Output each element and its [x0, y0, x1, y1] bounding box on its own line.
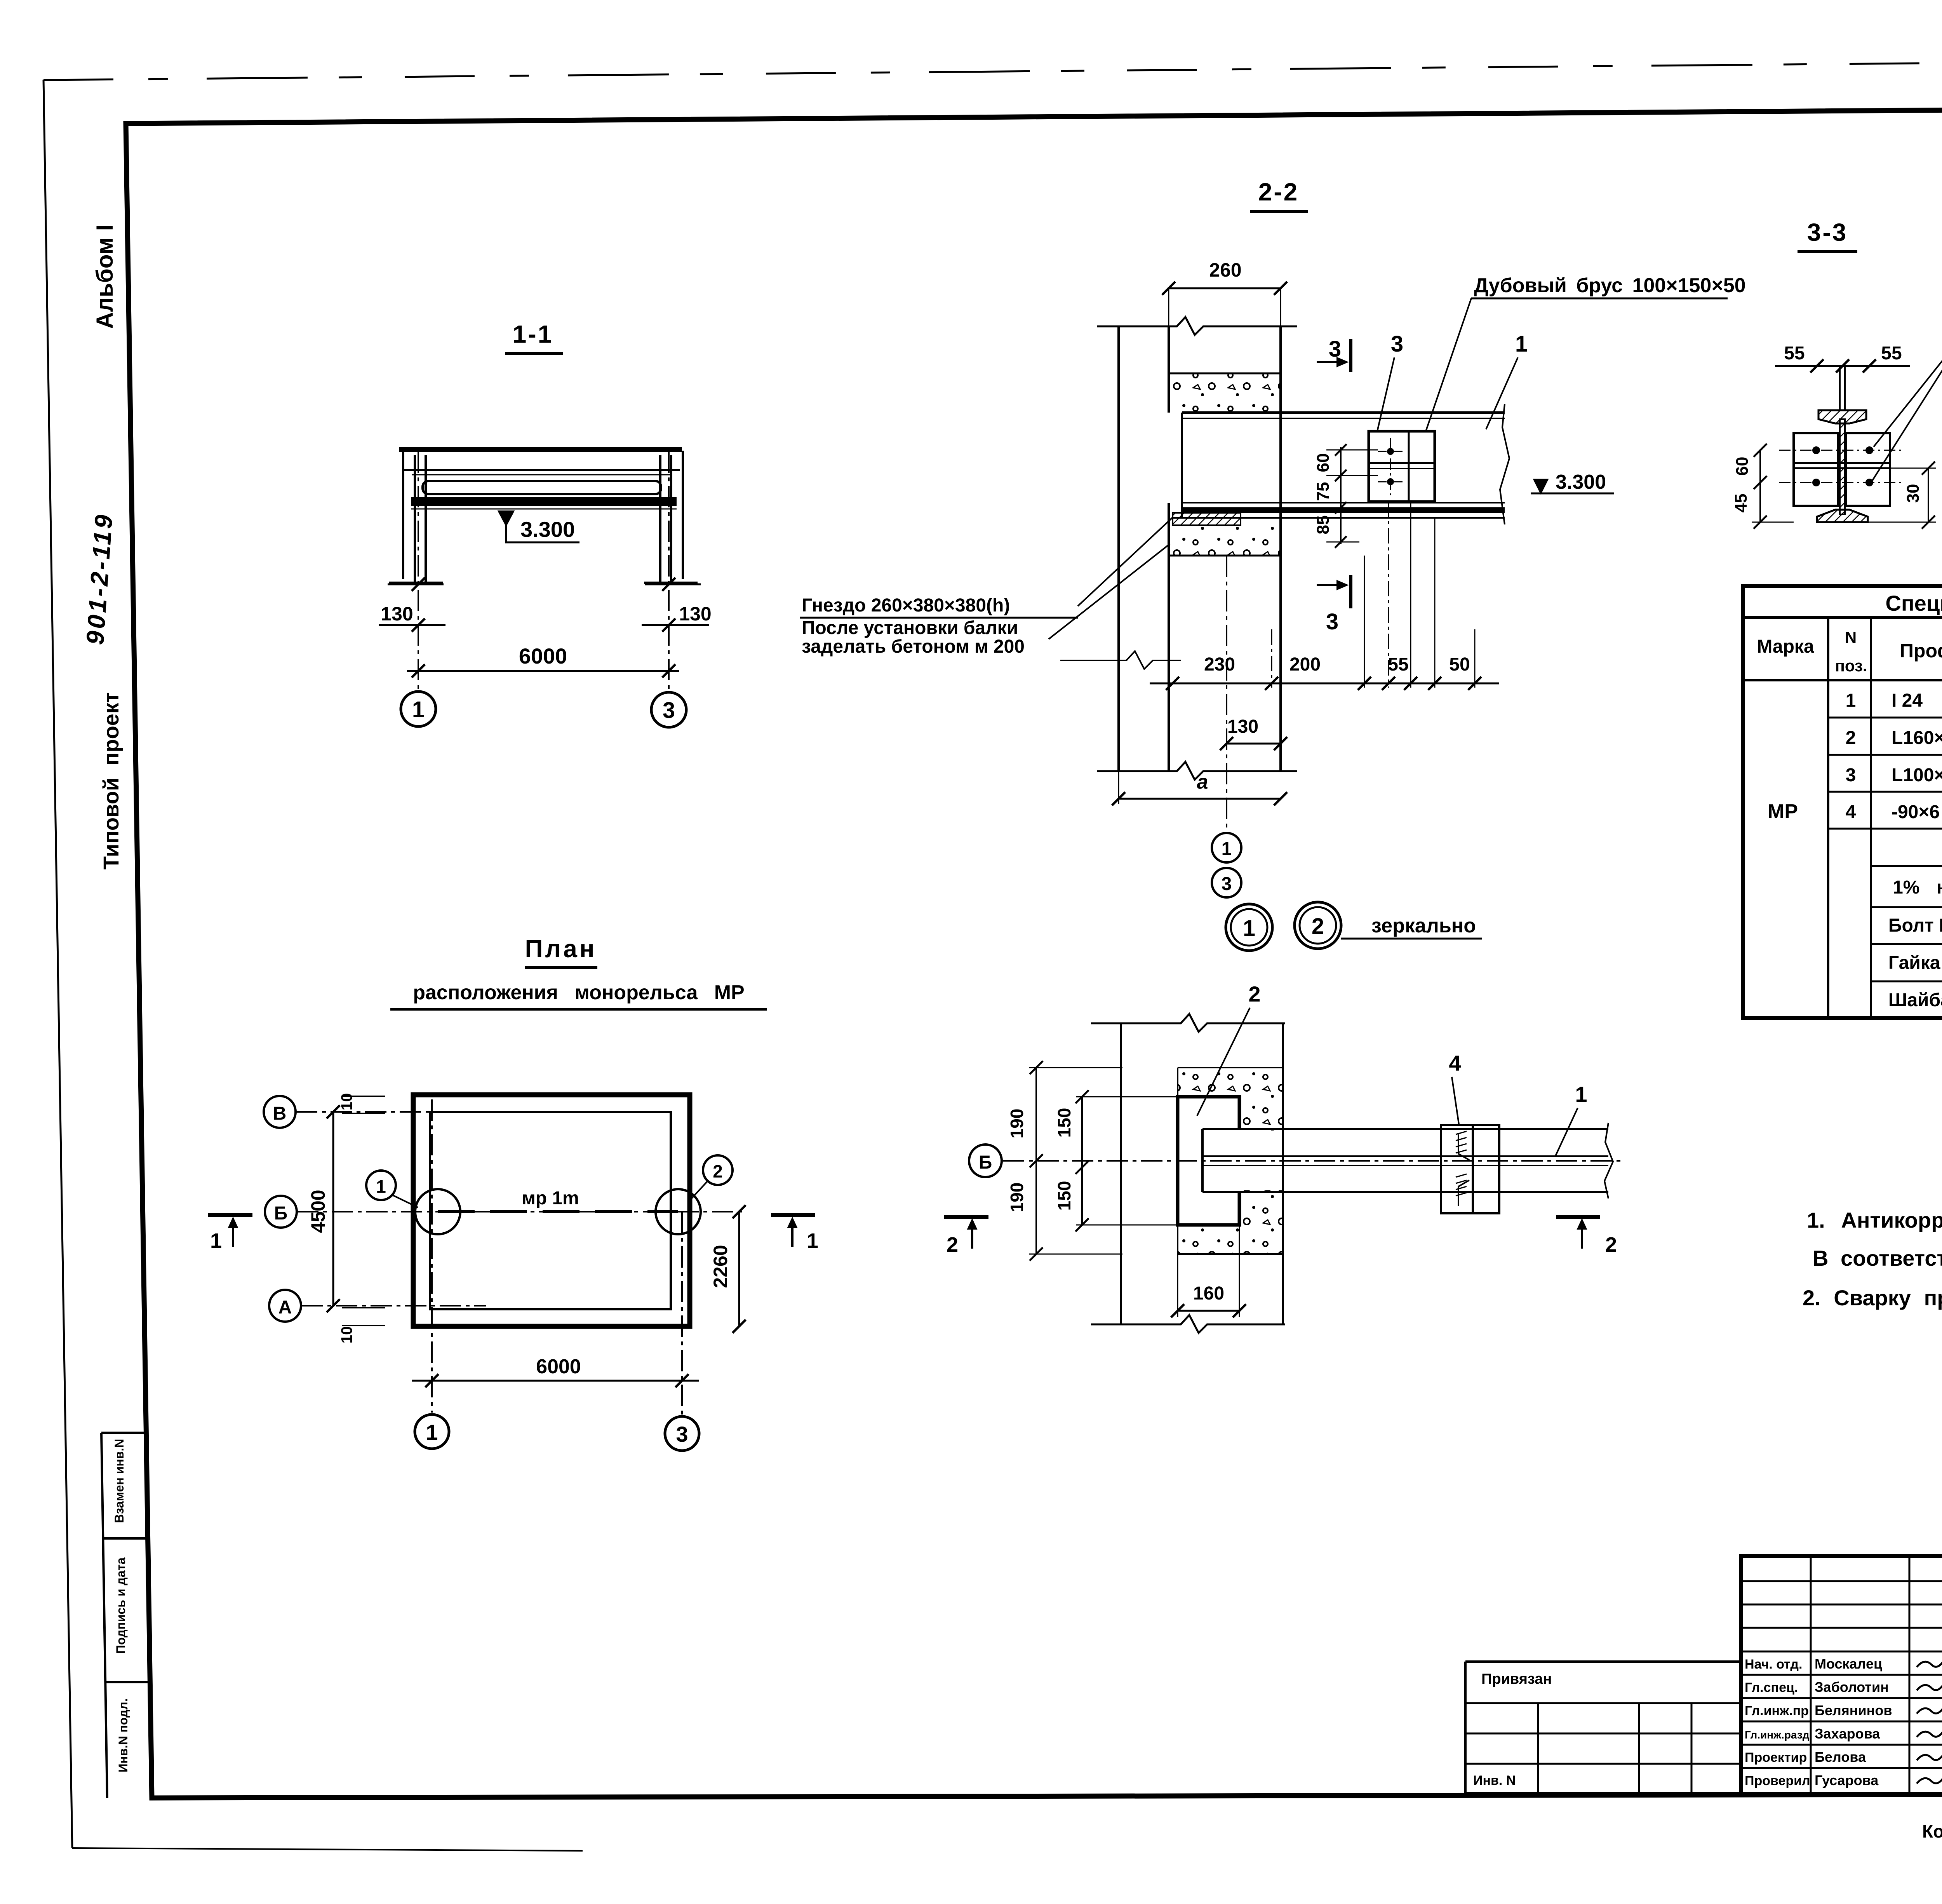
beam top line (node B)	[1202, 1128, 1608, 1130]
svg-text:2-2: 2-2	[1258, 178, 1299, 206]
svg-text:130: 130	[679, 603, 711, 625]
svg-text:60: 60	[1314, 453, 1333, 472]
svg-text:2260: 2260	[710, 1245, 731, 1288]
svg-text:Профиль: Профиль	[1900, 640, 1942, 662]
svg-text:2: 2	[1846, 728, 1856, 748]
svg-text:130: 130	[1227, 716, 1258, 737]
dim chain 150 line	[1081, 1097, 1083, 1225]
socket note underline	[800, 617, 1078, 619]
svg-text:Гайка М 12: Гайка М 12	[1888, 953, 1942, 973]
dim 260 ticks	[1162, 282, 1175, 295]
I-beam web	[1840, 419, 1845, 514]
bolt lower	[1387, 478, 1394, 485]
plate assembly left plate	[1441, 1125, 1473, 1213]
section mark 1 left arrow	[232, 1220, 234, 1247]
svg-text:Гл.инж.разд: Гл.инж.разд	[1745, 1729, 1810, 1741]
plate hatch marks upper	[1456, 1131, 1467, 1153]
beam bottom line	[1173, 517, 1505, 519]
dim 60 left line	[1759, 450, 1761, 483]
level mark 3.300 triangle	[499, 511, 513, 525]
plan bubble 1	[415, 1414, 449, 1449]
svg-text:190: 190	[1007, 1109, 1027, 1139]
svg-text:Гл.инж.пр: Гл.инж.пр	[1745, 1704, 1809, 1718]
grid bubble V	[264, 1096, 296, 1128]
privyazan table columns	[1537, 1703, 1539, 1794]
svg-text:Привязан: Привязан	[1481, 1671, 1552, 1687]
grid bubble 3 below 2-2	[1212, 868, 1241, 897]
svg-text:1: 1	[1846, 690, 1856, 711]
beam top flange inner line	[1182, 418, 1505, 419]
wall right face (node B)	[1282, 1023, 1284, 1324]
dim 160 ext lines	[1177, 1225, 1178, 1317]
grid bubble B (node B)	[969, 1144, 1002, 1177]
dim 30 right line	[1928, 468, 1929, 522]
wall top break line (node B)	[1091, 1014, 1285, 1032]
svg-text:Б: Б	[274, 1203, 288, 1224]
svg-text:В соответствии со СН и П III-: В соответствии со СН и П III-23-76	[1813, 1246, 1942, 1270]
svg-text:поз.: поз.	[1835, 657, 1867, 675]
svg-text:2. Сварку производить электрод: 2. Сварку производить электродами Э-42, …	[1803, 1286, 1942, 1310]
concrete boundary left upper	[1177, 1068, 1178, 1097]
wall back face line	[1279, 326, 1282, 771]
dim 130 right lower line	[642, 624, 709, 626]
svg-text:-90×6: -90×6	[1892, 802, 1940, 822]
dim 55/55 line	[1775, 365, 1910, 367]
web extension lines up	[1839, 365, 1841, 411]
dim chain ext verticals	[1271, 629, 1272, 688]
wall bottom break line	[1097, 762, 1297, 780]
right angle L100x7	[1846, 433, 1890, 506]
svg-text:Белова: Белова	[1815, 1749, 1866, 1765]
bearing pad hatch	[1173, 513, 1241, 525]
svg-text:1: 1	[376, 1176, 386, 1197]
svg-text:55: 55	[1784, 343, 1805, 364]
svg-text:85: 85	[1314, 516, 1333, 535]
svg-text:75: 75	[1314, 482, 1333, 501]
oak beam label underline	[1471, 298, 1728, 300]
title block outer	[1741, 1556, 1942, 1794]
svg-text:Копировал:: Копировал:	[1922, 1821, 1942, 1841]
svg-text:Шайба: Шайба	[1888, 990, 1942, 1010]
angles split lines	[1794, 462, 1890, 464]
dim a line	[1119, 798, 1281, 800]
svg-text:Болт М 12: Болт М 12	[1888, 915, 1942, 936]
concrete fill around niche top	[1178, 1068, 1283, 1097]
dim a ext line left	[1118, 771, 1119, 804]
dim 45 left line	[1759, 483, 1761, 522]
svg-text:2: 2	[1248, 982, 1260, 1006]
svg-text:3: 3	[1222, 874, 1232, 894]
svg-text:1-1: 1-1	[513, 320, 553, 348]
svg-text:Взамен инв.N: Взамен инв.N	[112, 1439, 126, 1523]
beam web lines (node B)	[1202, 1155, 1608, 1157]
position bubble 2	[703, 1155, 733, 1185]
sheet outer edge bottom	[72, 1848, 583, 1851]
beam right break	[1500, 404, 1509, 524]
dim 130 left ticks	[412, 578, 425, 591]
svg-text:3.300: 3.300	[520, 517, 575, 542]
grid line V (dash-dot)	[296, 1111, 486, 1113]
dim 260 extension lines	[1168, 288, 1169, 373]
svg-text:160: 160	[1193, 1283, 1224, 1304]
grid line A (dash-dot)	[301, 1305, 486, 1306]
oak block split lines	[1369, 462, 1435, 464]
svg-text:55: 55	[1388, 654, 1408, 675]
concrete boundary bottom	[1178, 1253, 1283, 1255]
grid bubble B	[265, 1196, 297, 1228]
svg-text:3.300: 3.300	[1556, 471, 1606, 493]
hole leader 2	[1872, 323, 1942, 481]
beam white background (node B)	[1203, 1131, 1608, 1190]
beam bottom flange inner line	[1182, 502, 1505, 503]
svg-text:Подпись и дата: Подпись и дата	[114, 1557, 128, 1654]
plan bottom extension line 3	[681, 1212, 683, 1414]
socket note leader 2	[1049, 544, 1170, 639]
signature table rows	[1741, 1580, 1942, 1582]
svg-text:Б: Б	[979, 1152, 992, 1173]
svg-text:130: 130	[381, 603, 413, 625]
svg-text:60: 60	[1733, 457, 1752, 476]
level mark 3.300 right triangle	[1534, 479, 1548, 493]
dim 130 left upper line	[388, 584, 444, 585]
detail circle 2 outer	[1295, 902, 1341, 949]
dim a ticks	[1112, 792, 1125, 805]
dim chain 190 ticks	[1030, 1061, 1043, 1074]
dim 2260 ticks	[733, 1205, 746, 1218]
wall bottom break line (node B)	[1091, 1315, 1285, 1333]
svg-text:30: 30	[1904, 484, 1923, 503]
left wall inner lines	[414, 455, 416, 582]
beam right break (node B)	[1604, 1123, 1613, 1198]
concrete boundary left lower	[1177, 1225, 1178, 1254]
ceiling slab soffit line	[402, 469, 680, 471]
plan bottom extension line 1	[431, 1099, 433, 1413]
svg-text:2: 2	[947, 1233, 958, 1256]
dim 130 right ticks	[662, 578, 675, 591]
svg-text:Москалец: Москалец	[1815, 1656, 1882, 1672]
dim 130 (2-2) line	[1227, 743, 1281, 745]
svg-text:зеркально: зеркально	[1371, 915, 1476, 937]
svg-text:Альбом I: Альбом I	[92, 225, 118, 329]
level mark leg	[506, 525, 579, 542]
svg-text:N: N	[1845, 628, 1857, 646]
svg-text:3: 3	[663, 698, 675, 723]
callout 3 leader	[1377, 357, 1394, 431]
privyazan table top	[1465, 1660, 1741, 1663]
svg-text:1. Антикоррозийную защиту конс: 1. Антикоррозийную защиту конструкций пр…	[1807, 1208, 1942, 1232]
dim 260 line	[1169, 287, 1281, 289]
svg-text:Гусарова: Гусарова	[1815, 1772, 1879, 1788]
signature squiggles	[1917, 1658, 1942, 1667]
ceiling slab thick line	[399, 447, 682, 452]
svg-text:3: 3	[1329, 336, 1341, 362]
svg-text:План: План	[525, 935, 597, 963]
svg-text:Инв.N подл.: Инв.N подл.	[116, 1698, 130, 1773]
section mark 1 right arrow	[791, 1220, 794, 1247]
svg-text:Гл.спец.: Гл.спец.	[1745, 1680, 1798, 1695]
svg-text:150: 150	[1054, 1181, 1074, 1211]
grid bubble 3	[651, 692, 686, 727]
svg-text:150: 150	[1054, 1108, 1074, 1138]
beam end vertical	[1181, 413, 1183, 518]
svg-text:1: 1	[1243, 916, 1255, 941]
sheet outer edge top (dashed)	[44, 57, 1942, 80]
svg-text:МР: МР	[1768, 800, 1798, 823]
leader bubble 1	[392, 1195, 418, 1207]
concrete fill below niche	[1178, 1225, 1283, 1254]
concrete fill right of niche	[1239, 1097, 1283, 1225]
dim 10 bottom lines	[342, 1307, 385, 1308]
dim 130 left lower line	[379, 624, 445, 626]
bolt centerline vertical	[1390, 438, 1391, 495]
svg-text:4500: 4500	[307, 1190, 329, 1233]
dim 160 ticks	[1171, 1304, 1184, 1317]
svg-text:4: 4	[1846, 802, 1856, 822]
svg-text:мр 1m: мр 1m	[522, 1188, 579, 1209]
svg-text:Типовой проект: Типовой проект	[99, 692, 123, 870]
right wall bottom tick	[644, 582, 698, 584]
svg-text:Заболотин: Заболотин	[1815, 1679, 1889, 1695]
svg-text:Белянинов: Белянинов	[1815, 1702, 1892, 1718]
signature table verticals	[1810, 1556, 1812, 1794]
svg-text:6000: 6000	[519, 644, 567, 668]
bolt dots	[1812, 446, 1820, 454]
svg-text:1: 1	[210, 1229, 222, 1252]
svg-text:В: В	[273, 1103, 287, 1124]
svg-text:1: 1	[1515, 331, 1528, 357]
svg-text:3: 3	[1391, 331, 1403, 357]
svg-text:Проектир: Проектир	[1745, 1750, 1807, 1765]
level mark 3.300 right line	[1531, 493, 1614, 495]
privyazan table rows	[1465, 1702, 1741, 1704]
left wall bottom tick	[389, 582, 443, 584]
dim chain 190 line	[1035, 1068, 1037, 1254]
wall inner face line lower	[1168, 503, 1170, 771]
embedded channel under slab	[423, 481, 661, 494]
callout 1 leader (node B)	[1556, 1108, 1578, 1156]
svg-text:Дубовый брус 100×150×50: Дубовый брус 100×150×50	[1474, 274, 1746, 297]
leader bubble 2	[688, 1181, 708, 1202]
svg-text:заделать бетоном м 200: заделать бетоном м 200	[802, 636, 1025, 657]
beam band bottom thin line	[411, 509, 677, 510]
wall break left line horizontal	[1060, 651, 1181, 669]
wall inner face line upper	[1168, 326, 1170, 413]
grid bubble 1	[401, 692, 436, 726]
table header bottom line	[1743, 679, 1942, 681]
I-beam top flange	[1818, 410, 1866, 423]
grid bubble A	[269, 1290, 301, 1322]
left angle L100x7	[1794, 433, 1838, 506]
dim 6000 bottom ticks	[425, 1374, 439, 1387]
right wall outer line	[682, 451, 684, 579]
dim 4500 line	[332, 1112, 334, 1306]
callout 1 leader	[1486, 357, 1518, 429]
plan title underline	[525, 966, 597, 969]
right wall inner lines	[670, 455, 672, 582]
table vertical: Marka|Npos	[1827, 618, 1829, 1018]
svg-text:I 24: I 24	[1892, 690, 1923, 711]
svg-text:10: 10	[338, 1093, 355, 1111]
section 1-1 title underline	[505, 352, 563, 355]
dim chain bottom ticks	[1166, 677, 1481, 690]
beam bottom line (node B)	[1202, 1191, 1608, 1193]
concrete boundary top	[1178, 1067, 1283, 1068]
wall right face across beam	[1282, 1129, 1284, 1192]
detail circle 2 inner	[1300, 907, 1336, 944]
dim 30 ext lines	[1890, 468, 1936, 469]
dim 55/55 ticks	[1810, 359, 1824, 373]
oak block divider	[1408, 431, 1410, 502]
svg-text:После установки балки: После установки балки	[802, 618, 1018, 638]
wall left face (node B)	[1120, 1023, 1122, 1324]
position bubble 1	[366, 1171, 396, 1200]
beam centerline 2-2	[1226, 556, 1227, 832]
svg-text:Проверил: Проверил	[1745, 1773, 1810, 1788]
svg-text:Спецификация стали на один: Спецификация стали на один элемент	[1885, 591, 1942, 615]
table outer border	[1743, 586, 1942, 1018]
beam centerline (node B)	[1003, 1160, 1624, 1162]
privyazan table left	[1464, 1662, 1467, 1794]
section 2-2 title underline	[1250, 210, 1308, 213]
dim chain 150 ticks	[1075, 1090, 1089, 1103]
svg-text:Марка: Марка	[1757, 636, 1814, 657]
dim 2260 line	[738, 1212, 740, 1326]
svg-text:55: 55	[1881, 343, 1902, 364]
concrete fill below socket	[1170, 525, 1279, 556]
dim 10 top lines	[342, 1096, 385, 1097]
svg-text:10: 10	[338, 1326, 355, 1344]
dim 130 right upper line	[645, 584, 701, 585]
svg-text:1: 1	[426, 1420, 438, 1444]
dim chain ext lines	[1326, 449, 1378, 451]
dim 6000 line	[407, 670, 679, 672]
niche rect (thick)	[1178, 1097, 1239, 1225]
svg-text:3-3: 3-3	[1807, 218, 1848, 246]
section mark 1 left bar	[208, 1213, 252, 1217]
svg-text:3: 3	[1326, 609, 1338, 634]
svg-text:расположения монорельса МР: расположения монорельса МР	[413, 981, 745, 1004]
plan inner wall rect	[430, 1112, 671, 1309]
section 3-3 title underline	[1798, 250, 1857, 253]
oak beam label leader	[1426, 298, 1471, 431]
svg-text:3: 3	[1846, 765, 1856, 786]
detail circle 1 inner	[1231, 909, 1267, 946]
svg-text:Инв. N: Инв. N	[1473, 1773, 1516, 1788]
grid line B (dash-dot)	[297, 1211, 742, 1212]
dim 4500 ticks	[327, 1105, 340, 1118]
detail circle node 1	[415, 1189, 460, 1234]
svg-text:2: 2	[1312, 914, 1324, 939]
svg-text:200: 200	[1289, 654, 1321, 675]
table row lines	[1828, 717, 1942, 719]
svg-text:1: 1	[412, 697, 425, 722]
svg-text:L160×100×12: L160×100×12	[1892, 728, 1942, 748]
section mark 2 right bar	[1556, 1215, 1600, 1219]
section mark 2 left arrow	[971, 1221, 973, 1249]
svg-text:1: 1	[1222, 839, 1232, 859]
grid bubble 1 below 2-2	[1212, 833, 1241, 862]
svg-text:L100×7: L100×7	[1892, 765, 1942, 786]
dim 6000 ticks	[412, 664, 425, 678]
hole leader 1	[1874, 323, 1942, 447]
left wall outer line	[402, 451, 404, 579]
concrete top boundary	[1169, 373, 1281, 375]
bolt row centerlines	[1779, 450, 1903, 451]
svg-text:1: 1	[1575, 1082, 1587, 1106]
socket note leader 1	[1078, 517, 1173, 606]
section mark 3 top symbol	[1349, 339, 1352, 372]
svg-text:Гнездо 260×380×380(h): Гнездо 260×380×380(h)	[802, 595, 1010, 616]
svg-text:1: 1	[807, 1229, 818, 1252]
svg-text:2: 2	[1605, 1233, 1617, 1256]
beam bottom flange thick line	[1182, 507, 1505, 513]
oak block rect	[1369, 431, 1435, 502]
zerkalno leader line	[1341, 938, 1482, 940]
left stamp cells	[101, 1433, 150, 1798]
svg-text:А: А	[278, 1297, 292, 1318]
wall top break line	[1097, 317, 1297, 335]
I-beam bottom flange	[1817, 510, 1868, 522]
plate assembly right plate	[1473, 1125, 1499, 1213]
dim chain bottom line	[1150, 683, 1499, 685]
svg-text:45: 45	[1731, 494, 1751, 513]
sheet outer edge left	[44, 80, 72, 1848]
concrete fill above socket	[1170, 373, 1279, 411]
svg-text:3: 3	[676, 1422, 688, 1446]
monorail beam band	[411, 497, 677, 506]
dim 45 ext line	[1752, 522, 1794, 523]
callout 2 leader	[1197, 1008, 1250, 1116]
plate hatch marks lower	[1456, 1174, 1467, 1196]
dim chain ticks	[1335, 444, 1347, 456]
callout 4 leader	[1452, 1077, 1459, 1124]
dim 6000 bottom line	[412, 1380, 699, 1382]
svg-text:Нач. отд.: Нач. отд.	[1745, 1657, 1802, 1672]
monorail beam dash line	[438, 1210, 678, 1213]
svg-text:6000: 6000	[536, 1355, 581, 1378]
bolt upper	[1387, 448, 1394, 455]
dim 160 line	[1178, 1310, 1239, 1312]
plan bubble 3	[665, 1416, 699, 1451]
grid centerline 3	[668, 451, 670, 692]
dim ext lines (node B)	[1029, 1067, 1122, 1068]
beam top flange line	[1182, 411, 1505, 414]
privyazan table bottom	[1465, 1792, 1741, 1795]
plate angle lines	[1458, 1134, 1469, 1206]
section mark 2 right arrow	[1581, 1221, 1583, 1249]
detail circle 1 outer	[1226, 904, 1272, 951]
grid centerline 1	[418, 451, 419, 691]
plan subtitle underline	[390, 1008, 767, 1011]
svg-text:50: 50	[1449, 654, 1470, 675]
detail circle node 2	[656, 1189, 701, 1234]
table vertical: Npos|Profil	[1870, 618, 1872, 1018]
svg-text:260: 260	[1209, 259, 1241, 281]
svg-text:Захарова: Захарова	[1815, 1726, 1880, 1742]
svg-text:4: 4	[1449, 1051, 1461, 1075]
section mark 3 bottom symbol	[1349, 575, 1352, 608]
svg-text:a: a	[1197, 771, 1208, 793]
table title bottom line	[1743, 616, 1942, 619]
svg-text:2: 2	[713, 1161, 723, 1181]
dim chain 60/75/85 line	[1340, 447, 1342, 544]
svg-text:230: 230	[1204, 654, 1235, 675]
svg-text:190: 190	[1007, 1183, 1027, 1212]
section mark 2 left bar	[944, 1215, 988, 1219]
svg-text:1% на сварные швы: 1% на сварные швы	[1893, 877, 1942, 898]
dim 130 (2-2) ticks	[1220, 737, 1233, 750]
beam end vertical (node B)	[1201, 1129, 1204, 1192]
